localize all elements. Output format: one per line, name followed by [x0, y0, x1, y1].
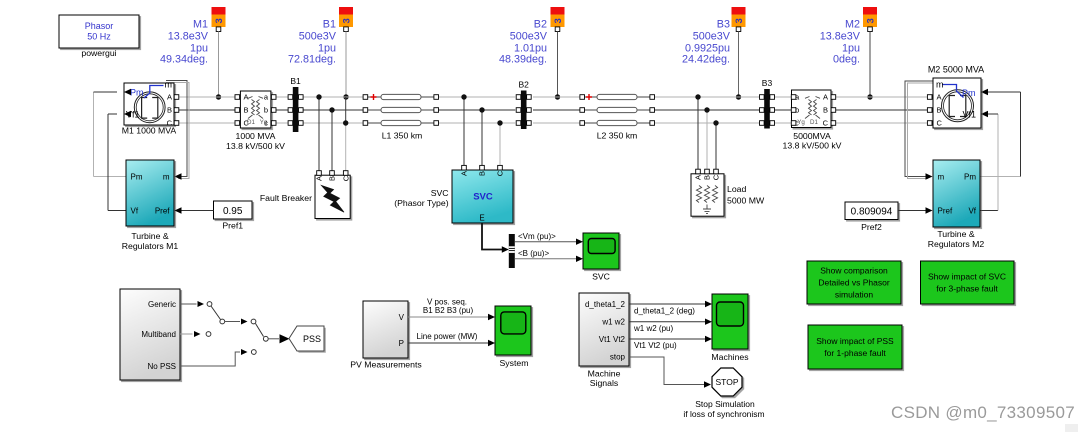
svg-text:Show impact of PSS: Show impact of PSS: [816, 336, 894, 346]
transformer 5000MVA block: [792, 90, 832, 128]
svg-text:Pref: Pref: [938, 206, 953, 215]
STOP block octagon: [712, 368, 742, 396]
svg-text:simulation: simulation: [835, 290, 874, 300]
phase B horizontal wire segments: [179, 109, 927, 111]
svg-text:B: B: [244, 106, 249, 115]
load flow bus tag B2: [551, 7, 565, 32]
svg-text:System: System: [500, 358, 529, 368]
PSS selector source block: [120, 289, 180, 380]
switch 1 lever: [211, 306, 221, 320]
junction dots SVC taps: [461, 94, 502, 125]
svg-text:1pu: 1pu: [318, 42, 336, 54]
switch 1 lower contact: [206, 332, 211, 337]
svg-text:B: B: [328, 176, 337, 181]
scope SVC: [583, 233, 619, 269]
svg-text:Regulators M2: Regulators M2: [928, 239, 985, 249]
svg-text:PSS: PSS: [303, 334, 321, 344]
fault breaker port labels: [315, 175, 351, 181]
svg-text:SVC: SVC: [473, 192, 493, 203]
transformer 1 windings icon: [248, 97, 263, 119]
svg-text:d_theta1_2: d_theta1_2: [585, 300, 626, 309]
load tap wires: [698, 97, 716, 171]
machine M2 input ports: [927, 95, 932, 126]
svg-text:0.809094: 0.809094: [851, 207, 893, 218]
measurement tap wire B3: [738, 32, 740, 98]
load resistor icons: [696, 186, 717, 203]
svg-text:500e3V: 500e3V: [693, 30, 731, 42]
PV Measurements block: [363, 301, 408, 358]
fault breaker tap wires: [319, 97, 346, 173]
goto tag PSS: [291, 328, 326, 353]
svg-text:w1 w2: w1 w2: [601, 318, 625, 327]
svg-text:Phasor: Phasor: [85, 21, 114, 31]
svg-text:M2: M2: [845, 18, 860, 30]
svg-text:48.39deg.: 48.39deg.: [499, 54, 547, 66]
SVC E output wire to bus selector: [482, 223, 503, 250]
svg-text:PV Measurements: PV Measurements: [350, 360, 422, 370]
junction dot B3 tap: [736, 94, 741, 99]
load flow bus tag M1: [212, 7, 226, 32]
machine signals port labels: [585, 300, 626, 362]
load flow bus text B1: [288, 18, 337, 65]
svg-text:P: P: [399, 339, 404, 348]
svg-text:SVC: SVC: [431, 188, 449, 198]
svg-text:13.8e3V: 13.8e3V: [168, 30, 209, 42]
svg-text:1.01pu: 1.01pu: [514, 42, 547, 54]
svg-text:C: C: [937, 119, 943, 128]
junction dot M2 tap: [867, 94, 872, 99]
svg-text:0.95: 0.95: [223, 206, 243, 217]
svg-text:m: m: [936, 80, 944, 90]
svg-text:C: C: [341, 175, 350, 181]
svg-text:Load: Load: [727, 184, 746, 194]
svg-text:STOP: STOP: [716, 377, 739, 387]
transmission line block L1 350 km: [363, 94, 438, 125]
svg-text:B: B: [823, 106, 828, 115]
svg-text:B1: B1: [290, 76, 301, 86]
svg-text:B2: B2: [518, 80, 529, 90]
measurement tap wire B1: [345, 32, 347, 98]
svg-text:B: B: [167, 106, 172, 115]
svg-text:3: 3: [214, 18, 225, 23]
Machine Signals block: [579, 293, 629, 366]
SVC port labels: [460, 170, 505, 176]
svg-text:Show comparison: Show comparison: [820, 266, 888, 276]
load block: [691, 174, 724, 216]
load flow bus text B3: [682, 18, 731, 65]
svg-text:Turbine &: Turbine &: [131, 231, 169, 241]
machine M1 input arrows: [124, 89, 131, 95]
load port labels: [694, 174, 721, 180]
machine M1 m-bus wire (double line): [166, 81, 187, 177]
synchronous machine M1 block: [124, 83, 174, 125]
svg-text:M1: M1: [193, 18, 208, 30]
svg-text:24.42deg.: 24.42deg.: [682, 54, 730, 66]
machine M1 internal blue wire: [144, 86, 164, 99]
svg-text:Pm: Pm: [964, 172, 976, 181]
bus bar B3: [760, 89, 775, 129]
svg-text:A: A: [244, 93, 249, 102]
svg-text:Vf: Vf: [968, 206, 976, 215]
machine M2 internal blue wire: [942, 85, 964, 98]
svg-text:Pref1: Pref1: [222, 221, 243, 231]
svg-text:49.34deg.: 49.34deg.: [160, 54, 208, 66]
svg-text:Machines: Machines: [711, 352, 749, 362]
svg-text:L1 350 km: L1 350 km: [382, 131, 423, 141]
load flow bus tag B3: [732, 7, 746, 32]
wire No PSS to switch 2: [180, 352, 240, 366]
svg-text:A: A: [167, 93, 172, 102]
turbine and regulators M2 block: [933, 160, 980, 227]
svg-text:M1 1000 MVA: M1 1000 MVA: [122, 126, 177, 136]
svg-text:Fault Breaker: Fault Breaker: [260, 193, 312, 203]
PSS source labels: [141, 300, 176, 371]
junction dots breaker taps: [316, 94, 348, 125]
svg-text:Vt1 Vt2 (pu): Vt1 Vt2 (pu): [634, 341, 677, 350]
svg-text:B2: B2: [534, 18, 547, 30]
load ground symbol: [703, 205, 711, 214]
measurement tap wire B2: [557, 32, 559, 98]
machine M2 m-bus wire (double line): [905, 81, 940, 177]
svg-text:d_theta1_2 (deg): d_theta1_2 (deg): [634, 306, 695, 315]
machine M2 Vf feedback wire: [980, 114, 998, 211]
svg-text:D1: D1: [810, 119, 818, 126]
svg-text:(Phasor Type): (Phasor Type): [394, 198, 449, 208]
svg-text:A: A: [315, 176, 324, 181]
turbine M1 Pm feedback wire: [94, 92, 127, 177]
corner mark: [1065, 424, 1078, 432]
switch 2 top contact: [251, 319, 256, 324]
svg-text:A: A: [823, 93, 828, 102]
SVC block: [452, 170, 513, 223]
machine M2 Pm feedback wire: [980, 92, 1021, 177]
button Show comparison Detailed vs Phasor simulation: [807, 261, 901, 304]
measurement tap wire M1: [218, 32, 220, 98]
svg-text:for 3-phase fault: for 3-phase fault: [936, 284, 998, 294]
svg-text:w1 w2 (pu): w1 w2 (pu): [633, 324, 673, 333]
svg-text:CSDN @m0_73309507: CSDN @m0_73309507: [891, 403, 1075, 422]
wire P to System scope: [408, 342, 489, 344]
svg-text:C: C: [712, 174, 721, 180]
svg-text:B1 B2 B3 (pu): B1 B2 B3 (pu): [423, 306, 474, 315]
transformer 1 ports: [235, 95, 276, 126]
svg-text:C: C: [496, 170, 505, 176]
scope System: [495, 306, 531, 355]
svg-text:m: m: [938, 172, 945, 181]
svg-text:3: 3: [865, 18, 876, 23]
svg-text:Pm: Pm: [130, 88, 144, 98]
svg-text:B3: B3: [762, 78, 773, 88]
svg-text:3: 3: [341, 18, 352, 23]
svg-text:50 Hz: 50 Hz: [87, 31, 111, 41]
fault breaker block: [315, 175, 350, 218]
svg-text:Pref: Pref: [155, 206, 170, 215]
svg-text:B1: B1: [323, 18, 336, 30]
svg-text:5000MVA: 5000MVA: [793, 131, 831, 141]
machine M2 icon: [942, 90, 974, 122]
red plus marker near L1 350 km: [371, 94, 377, 100]
svg-text:<B (pu)>: <B (pu)>: [518, 249, 549, 258]
SVC top ports: [462, 165, 503, 170]
svg-text:m: m: [163, 172, 170, 181]
bus selector bar: [509, 234, 515, 268]
junction dot M1 tap: [216, 94, 221, 99]
svg-text:E: E: [479, 214, 484, 223]
svg-text:B: B: [478, 171, 487, 176]
svg-text:M2 5000 MVA: M2 5000 MVA: [928, 64, 984, 74]
switch 2 lower contact: [251, 350, 256, 355]
svg-text:500e3V: 500e3V: [510, 30, 548, 42]
svg-text:Pm: Pm: [962, 88, 976, 98]
red plus marker near L2 350 km: [586, 94, 592, 100]
transformer 2 windings icon: [805, 97, 820, 119]
svg-text:Stop Simulation: Stop Simulation: [695, 399, 755, 409]
wire Vt1 Vt2 to Machines scope: [629, 338, 706, 340]
svg-text:0.9925pu: 0.9925pu: [685, 42, 730, 54]
transformer 1 port labels: [244, 93, 269, 128]
wire w1 w2 to Machines scope: [629, 321, 706, 323]
wire switch 1 to switch 2: [225, 321, 240, 323]
svg-text:m: m: [165, 80, 173, 90]
svg-text:stop: stop: [610, 353, 626, 362]
svg-text:Vt1 Vt2: Vt1 Vt2: [599, 335, 626, 344]
wire stop to STOP block: [629, 357, 704, 385]
machine M1 output ports: [174, 95, 179, 126]
svg-text:Generic: Generic: [148, 300, 176, 309]
button Show impact of SVC for 3-phase fault: [921, 261, 1015, 304]
svg-text:C: C: [823, 119, 829, 128]
svg-text:Machine: Machine: [588, 368, 621, 378]
button Show impact of PSS for 1-phase fault: [808, 325, 902, 369]
constant Pref1 block: [214, 201, 253, 219]
scope Machines: [712, 294, 748, 349]
svg-text:if loss of synchronism: if loss of synchronism: [683, 409, 764, 419]
synchronous machine M2 block: [933, 78, 981, 128]
bus bar B1: [288, 87, 303, 132]
measurement tap wire M2: [869, 32, 871, 98]
svg-text:c: c: [264, 119, 268, 128]
turbine M2 port labels: [938, 172, 977, 215]
load ports: [696, 169, 719, 174]
svg-text:0deg.: 0deg.: [833, 54, 860, 66]
svg-text:L2 350 km: L2 350 km: [597, 131, 638, 141]
svg-text:5000 MW: 5000 MW: [727, 195, 765, 205]
turbine and regulators M1 block: [126, 160, 174, 226]
constant Pref2 block: [845, 202, 898, 220]
svg-text:Pm: Pm: [131, 172, 143, 181]
load flow bus text M1: [160, 18, 209, 65]
fault breaker ports: [317, 171, 348, 176]
svg-text:1pu: 1pu: [842, 42, 860, 54]
svg-text:B: B: [937, 106, 942, 115]
svg-text:Regulators M1: Regulators M1: [122, 241, 179, 251]
powergui block: [59, 15, 139, 48]
wire Multiband to switch 1: [180, 333, 193, 335]
svg-text:Signals: Signals: [590, 378, 619, 388]
switch 2 output contact: [263, 336, 268, 341]
svg-text:No PSS: No PSS: [148, 362, 176, 371]
svg-text:SVC: SVC: [592, 272, 610, 282]
machine M2 port labels: [936, 80, 976, 128]
svg-text:3: 3: [553, 18, 564, 23]
svg-text:powergui: powergui: [81, 48, 116, 58]
transmission line block L2 350 km: [580, 94, 655, 125]
svg-text:b: b: [264, 106, 268, 115]
phase A horizontal wire segments: [179, 96, 927, 98]
svg-text:13.8 kV/500 kV: 13.8 kV/500 kV: [783, 141, 842, 151]
wire switch 2 to PSS goto tag: [268, 338, 279, 340]
svg-text:B: B: [703, 175, 712, 180]
load flow bus text M2: [820, 18, 861, 65]
svg-text:13.8e3V: 13.8e3V: [820, 30, 861, 42]
svg-text:for 1-phase fault: for 1-phase fault: [824, 348, 886, 358]
junction dot B2 tap: [555, 94, 560, 99]
svg-text:Vf1: Vf1: [963, 109, 977, 119]
svg-text:A: A: [694, 175, 703, 180]
svg-text:A: A: [937, 93, 942, 102]
machine M1 icon: [134, 92, 165, 123]
svg-text:A: A: [460, 171, 469, 176]
svg-text:V: V: [399, 313, 405, 322]
svg-text:500e3V: 500e3V: [299, 30, 337, 42]
load flow bus text B2: [499, 18, 548, 65]
svg-text:72.81deg.: 72.81deg.: [288, 54, 336, 66]
junction dots load taps: [695, 94, 718, 125]
svg-text:1000 MVA: 1000 MVA: [236, 131, 276, 141]
switch 2 lever: [256, 324, 264, 337]
SVC tap wires: [464, 97, 500, 165]
machine M1 port labels: [126, 80, 173, 128]
svg-text:Line power (MW): Line power (MW): [417, 332, 478, 341]
wire Pref2 to turbine M2: [898, 210, 929, 212]
load flow bus tag B1: [339, 7, 353, 32]
switch 1 output contact: [220, 319, 225, 324]
PV measurements port labels: [399, 313, 405, 348]
svg-text:Vf: Vf: [131, 206, 139, 215]
load flow bus tag M2: [863, 7, 877, 32]
svg-text:13.8 kV/500 kV: 13.8 kV/500 kV: [226, 141, 285, 151]
svg-text:B3: B3: [717, 18, 730, 30]
junction dot B1 tap: [343, 94, 348, 99]
phase C horizontal wire segments: [179, 122, 927, 124]
svg-text:C: C: [244, 119, 250, 128]
bus bar B2: [516, 91, 531, 130]
svg-text:Turbine &: Turbine &: [937, 229, 975, 239]
svg-text:<Vm (pu)>: <Vm (pu)>: [518, 232, 556, 241]
transformer 2 ports: [791, 95, 835, 126]
wire d_theta1_2 to Machines scope: [629, 303, 706, 305]
transformer 1000 MVA block: [240, 91, 271, 128]
svg-text:3: 3: [734, 18, 745, 23]
wire Pref1 to turbine M1: [177, 210, 214, 212]
wire Generic to switch 1: [180, 303, 197, 305]
bus selector output wires: [515, 242, 577, 259]
svg-text:Multiband: Multiband: [141, 330, 176, 339]
svg-text:Pref2: Pref2: [861, 222, 882, 232]
turbine M1 Vf feedback wire: [108, 114, 126, 211]
svg-text:Detailed vs Phasor: Detailed vs Phasor: [818, 278, 890, 288]
wire V to System scope: [408, 316, 489, 318]
svg-text:1pu: 1pu: [190, 42, 208, 54]
svg-text:Show impact of SVC: Show impact of SVC: [928, 272, 1006, 282]
switch 1 top contact: [207, 302, 212, 307]
lightning bolt icon: [322, 186, 345, 213]
turbine M1 port labels: [131, 172, 171, 215]
transformer 2 port labels: [795, 93, 829, 128]
